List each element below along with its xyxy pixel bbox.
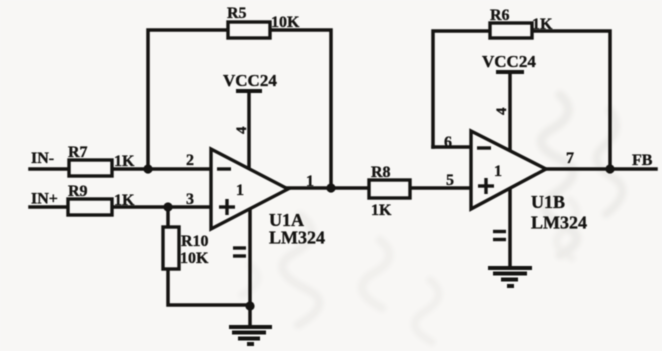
- power VCC24 U1A: [223, 71, 277, 91]
- wire U1A VCC pin 4: [247, 91, 251, 170]
- svg-text:U1B: U1B: [531, 192, 565, 212]
- svg-text:4: 4: [494, 107, 510, 115]
- resistor R9: [68, 183, 135, 215]
- junction node U1A ground: [245, 301, 254, 310]
- svg-text:3: 3: [186, 191, 194, 208]
- svg-text:FB: FB: [632, 152, 653, 169]
- svg-text:1K: 1K: [532, 16, 553, 33]
- resistor R6: [490, 7, 553, 38]
- svg-text:R6: R6: [490, 7, 510, 24]
- junction node U1A pin3/R10: [163, 202, 172, 211]
- svg-text:2: 2: [186, 152, 194, 169]
- svg-text:R8: R8: [371, 164, 391, 181]
- wire U1B pin 11 to ground: [508, 189, 512, 267]
- svg-text:10K: 10K: [271, 14, 300, 31]
- svg-text:7: 7: [566, 150, 574, 167]
- wire U1B output to FB: [546, 167, 656, 171]
- wire U1A pin 11 to ground: [248, 208, 252, 326]
- power VCC24 U1B: [482, 52, 536, 72]
- wire U1B pin 6: [433, 145, 471, 149]
- resistor R8: [369, 164, 410, 219]
- resistor R5: [227, 5, 300, 38]
- svg-text:1K: 1K: [114, 192, 135, 209]
- op-amp U1B: [471, 131, 546, 209]
- wire IN- to U1A pin 2: [30, 167, 211, 171]
- svg-text:6: 6: [444, 134, 452, 151]
- ground U1B: [488, 268, 532, 286]
- resistor R7: [68, 144, 135, 176]
- svg-text:R5: R5: [227, 5, 247, 22]
- wire U1A output to U1B pin 5: [287, 186, 471, 190]
- svg-text:R7: R7: [68, 144, 88, 161]
- svg-text:R9: R9: [68, 183, 88, 200]
- svg-text:IN+: IN+: [31, 191, 58, 208]
- wire U1A feedback loop through R5: [148, 30, 331, 188]
- svg-text:1K: 1K: [114, 153, 135, 170]
- svg-text:5: 5: [446, 172, 454, 189]
- svg-text:VCC24: VCC24: [223, 71, 277, 90]
- svg-text:R10: R10: [181, 233, 209, 250]
- ground U1A: [229, 327, 272, 344]
- wire R10 branch to ground node: [168, 207, 250, 305]
- svg-text:IN-: IN-: [31, 150, 54, 167]
- wire U1B VCC pin 4: [508, 72, 512, 152]
- resistor R10: [163, 227, 209, 269]
- svg-text:1: 1: [236, 182, 244, 199]
- svg-text:1K: 1K: [371, 202, 392, 219]
- svg-text:1: 1: [494, 163, 502, 180]
- svg-text:1: 1: [306, 173, 314, 190]
- wire IN+ to U1A pin 3: [30, 205, 211, 209]
- junction node U1A pin2/R5: [143, 164, 152, 173]
- op-amp U1A: [211, 149, 288, 229]
- svg-text:VCC24: VCC24: [482, 52, 536, 71]
- wire U1B feedback loop through R6: [433, 31, 610, 169]
- svg-text:4: 4: [234, 126, 250, 134]
- svg-text:LM324: LM324: [269, 228, 325, 248]
- svg-text:10K: 10K: [180, 250, 209, 267]
- junction node U1B output: [605, 164, 614, 173]
- pin 11 U1A: [233, 248, 246, 256]
- pin 11 U1B: [493, 232, 506, 240]
- junction node U1A output: [326, 183, 335, 192]
- svg-text:LM324: LM324: [531, 213, 587, 233]
